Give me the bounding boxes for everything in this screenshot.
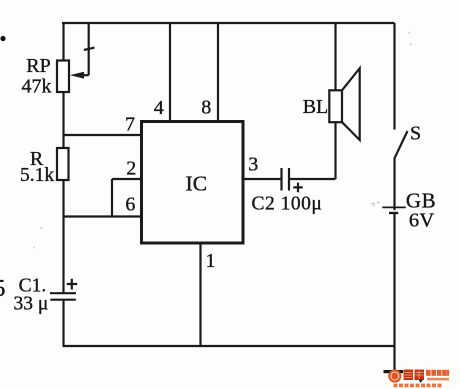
wire pin 8: [217, 23, 219, 122]
watermark big text block 2: [415, 370, 425, 381]
wire pin 4: [169, 23, 171, 122]
wire speaker vertical upper: [334, 23, 336, 91]
watermark arrow mark: [419, 380, 424, 384]
wire left rail RP-to-R segment: [62, 92, 64, 149]
wire right rail upper segment: [393, 23, 395, 130]
wire pin 1: [199, 243, 201, 346]
wire pin 2: [112, 178, 143, 180]
wire right rail battery-to-bottom segment: [393, 214, 395, 371]
watermark logo circle inner: [391, 372, 399, 380]
wire RP wiper horizontal with arrow: [82, 74, 89, 76]
svg-text:6: 6: [125, 193, 135, 215]
svg-text:4: 4: [154, 97, 164, 119]
battery GB long plate: [382, 206, 406, 208]
watermark logo circle: [388, 369, 401, 382]
IC U1 box: [142, 122, 244, 244]
watermark bottom tiny text row: [394, 384, 442, 388]
RP wiper arrowhead: [70, 72, 84, 79]
svg-text:47k: 47k: [22, 76, 52, 98]
svg-text:S: S: [410, 122, 421, 144]
noise speck near battery: [372, 203, 380, 206]
noise speck 2: [409, 43, 411, 45]
C1 plus sign: [67, 279, 78, 290]
switch S blade: [394, 131, 407, 159]
watermark small url line: [427, 378, 449, 381]
svg-text:RP: RP: [26, 55, 50, 77]
svg-text:6V: 6V: [409, 209, 435, 231]
wire pin 3: [243, 178, 281, 180]
speaker BL body: [329, 90, 342, 122]
node dot at left edge: [0, 36, 5, 41]
wire pin 6: [63, 215, 143, 217]
capacitor C1 top plate: [50, 292, 76, 294]
svg-text:1: 1: [206, 250, 216, 272]
watermark mid text blocks: [426, 370, 449, 376]
wire pin2-pin6 connector: [111, 179, 113, 217]
resistor R body: [57, 148, 69, 180]
watermark black bar: [384, 370, 404, 373]
C2 plus sign: [293, 183, 302, 193]
svg-text:BL: BL: [303, 96, 329, 118]
battery GB short plate: [389, 212, 398, 214]
svg-text:5: 5: [0, 276, 6, 302]
capacitor C1 bottom plate: [50, 299, 76, 301]
capacitor C2 right plate: [288, 168, 290, 191]
wire right rail switch-to-battery segment: [393, 158, 395, 210]
wire RP wiper vertical: [88, 23, 90, 75]
svg-text:8: 8: [201, 97, 211, 119]
noise speck above C1: [33, 247, 35, 249]
svg-text:33 μ: 33 μ: [13, 293, 48, 314]
wire left rail upper segment: [62, 23, 64, 61]
svg-text:C2 100μ: C2 100μ: [252, 194, 323, 215]
svg-text:2: 2: [126, 157, 136, 179]
wire top rail: [62, 22, 395, 24]
wire speaker vertical lower: [334, 123, 336, 180]
RP wiper tick mark: [84, 48, 95, 50]
wire left rail R-to-C1 segment: [62, 180, 64, 293]
svg-text:5.1k: 5.1k: [20, 165, 54, 186]
wire pin 7: [63, 134, 143, 136]
svg-text:3: 3: [248, 153, 258, 175]
noise speck right of top corner: [408, 32, 410, 34]
wire left rail C1-to-bottom segment: [62, 300, 64, 347]
noise speck mid left: [41, 227, 43, 229]
svg-text:IC: IC: [186, 172, 208, 196]
speaker BL horn: [342, 68, 360, 140]
wire C2 to speaker: [290, 178, 336, 180]
watermark big text block 1: [404, 370, 414, 381]
svg-text:7: 7: [125, 114, 135, 136]
wire bottom rail: [63, 345, 396, 347]
capacitor C2 left plate: [280, 168, 282, 191]
potentiometer RP body: [57, 61, 69, 93]
